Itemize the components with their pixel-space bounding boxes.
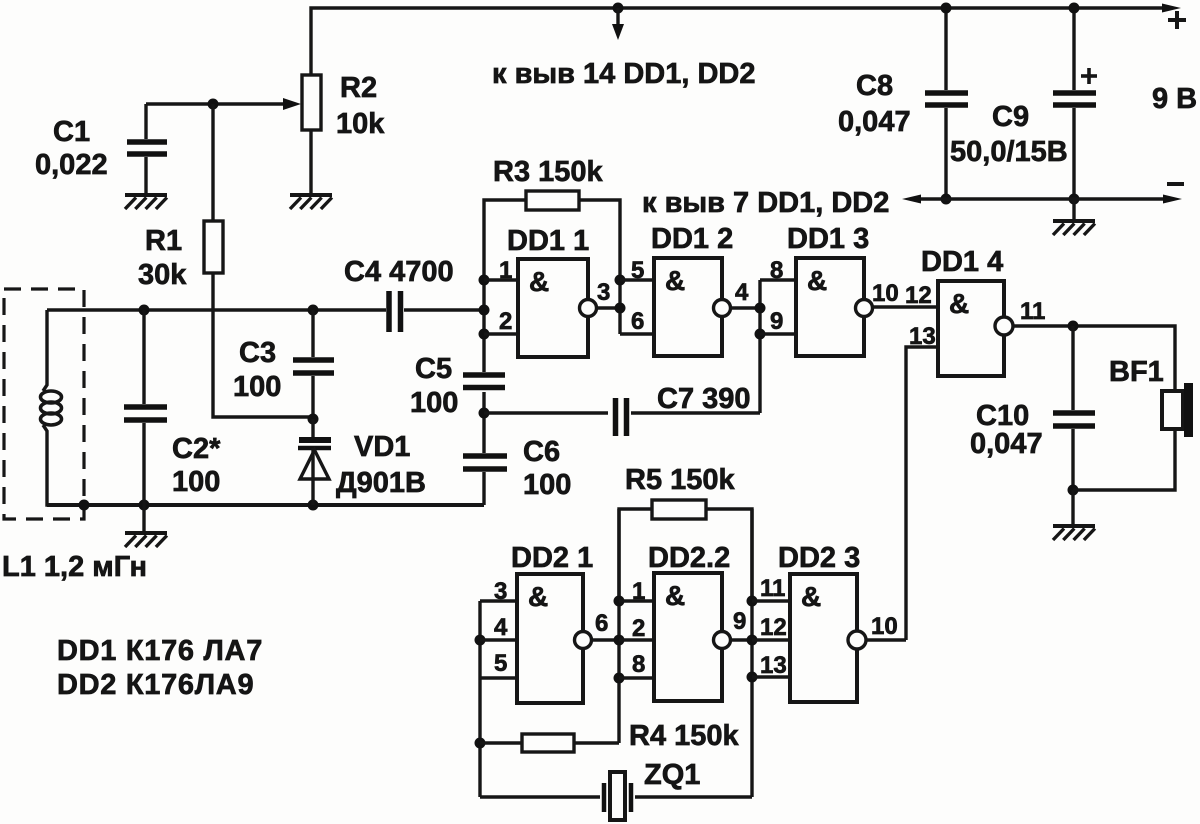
label 9 V [1152,83,1197,115]
wire +9V top rail [311,4,1181,76]
crystal ZQ1 [480,772,752,820]
speaker BF1 [1073,383,1193,490]
capacitor C9 polarized [1053,3,1097,205]
svg-text:C1: C1 [53,116,90,148]
svg-text:R1: R1 [145,225,182,257]
label BF1 [1109,356,1164,388]
svg-text:L1 1,2 мГн: L1 1,2 мГн [2,551,147,583]
svg-text:0,022: 0,022 [35,149,108,181]
svg-text:12: 12 [760,614,787,641]
label C7 390 [657,383,751,415]
pin 9 [770,308,783,335]
resistor R5 [619,500,752,601]
pin 4 [735,279,749,306]
svg-text:C4 4700: C4 4700 [344,256,454,288]
label R2 10k [336,72,385,140]
svg-text:100: 100 [523,469,571,501]
wire C9 to ground [1072,199,1075,221]
capacitor C10 [1053,326,1095,496]
pin 5 [631,257,644,284]
svg-text:&: & [529,266,549,297]
label к выв 14 DD1, DD2 [492,58,756,90]
label к выв 7 DD1, DD2 [642,187,889,219]
svg-text:13: 13 [760,652,787,679]
svg-text:8: 8 [632,651,645,678]
ground below C10 [1053,526,1095,540]
svg-text:DD2 К176ЛА9: DD2 К176ЛА9 [57,669,254,701]
svg-text:10: 10 [872,280,899,307]
wire pin13 stub from DD2.3 output [906,347,938,640]
gate DD2.2 [654,573,731,701]
node top rail junction to pin 14 with down arrow [612,3,624,41]
svg-text:к выв 7 DD1, DD2: к выв 7 DD1, DD2 [642,187,889,219]
gate DD1.2 [654,258,731,356]
wire C10 to ground [1071,490,1074,524]
potentiometer R2 body [302,75,321,130]
pin 12 DD2.3 [760,614,787,641]
pin 10 DD2.3 [871,613,898,640]
pin 2 DD2.2 [632,615,645,642]
label R3 150k [493,156,604,188]
label C1 0,022 [35,116,108,181]
svg-text:C5: C5 [415,353,452,385]
capacitor C5 [463,375,505,453]
svg-text:8: 8 [770,257,783,284]
wire out4 to DD1.3 inputs [731,280,766,413]
svg-text:C3: C3 [239,337,276,369]
wire pin13 stub [752,675,790,678]
label DD2 1 [511,542,593,574]
minus terminal symbol [1167,182,1184,186]
label DD2 K176LA9 [57,669,254,701]
svg-text:&: & [528,581,548,612]
svg-text:100: 100 [410,387,458,419]
label DD1 1 [507,225,589,257]
wire pin5 stub [480,676,517,679]
varicap diode VD1 [298,414,331,506]
wire out6 to DD2.2 inputs [592,509,625,743]
svg-text:100: 100 [172,466,220,498]
wire pin6 stub [620,332,654,335]
svg-text:9 В: 9 В [1152,83,1197,115]
svg-text:1: 1 [499,257,512,284]
label C6 100 [523,436,571,501]
capacitor C4 [389,291,401,332]
wire tank bottom node [47,500,484,511]
wire pin3 stub [480,599,517,602]
label C8 0,047 [838,70,911,138]
svg-text:DD1 4: DD1 4 [921,246,1003,278]
svg-text:10: 10 [871,613,898,640]
svg-text:R3 150k: R3 150k [493,156,604,188]
svg-text:0,047: 0,047 [838,106,911,138]
svg-text:DD2 1: DD2 1 [511,542,593,574]
svg-text:50,0/15В: 50,0/15В [950,136,1068,168]
pin 1 DD2.2 [632,578,645,605]
wire pin9 stub [760,332,796,335]
pin 13 [909,323,936,350]
pin 8 DD2.2 [632,651,645,678]
capacitor C3 [293,310,334,419]
svg-text:VD1: VD1 [354,431,410,463]
label R5 150k [625,464,736,496]
gate DD1.3 [796,258,873,356]
wire out9 to DD2.3 inputs [731,509,758,797]
svg-text:10k: 10k [336,108,385,140]
svg-text:6: 6 [631,308,644,335]
label R1 30k [138,225,187,291]
wire pin1 stub [484,278,518,281]
svg-text:DD1 1: DD1 1 [507,225,589,257]
pin 1 [499,257,512,284]
node input DD1.1 vertical [479,275,490,373]
svg-text:1: 1 [632,578,645,605]
svg-text:11: 11 [760,575,785,602]
capacitor C7 [484,398,760,436]
ground below R2 [290,195,332,209]
svg-text:к выв 14 DD1, DD2: к выв 14 DD1, DD2 [492,58,756,90]
inductor L1 dashed screen box [4,289,84,519]
label C4 4700 [344,256,454,288]
label C5 100 [410,353,458,419]
svg-text:C9: C9 [992,101,1029,133]
wire R2 bottom lead [309,130,312,193]
node DD2.1 inputs bracket [475,601,486,797]
label C3 100 [233,337,281,403]
label DD2 3 [778,542,860,574]
svg-text:&: & [665,580,685,611]
svg-text:30k: 30k [138,259,187,291]
svg-text:DD1 2: DD1 2 [651,223,733,255]
plus terminal symbol [1168,11,1186,29]
capacitor C6 [463,456,507,505]
svg-text:3: 3 [597,279,610,306]
wire pin8 stub DD2.2 [619,676,654,679]
svg-text:C6: C6 [523,436,560,468]
gate DD1.1 [518,259,597,357]
wire out11 node [1013,321,1175,392]
pin 8 [770,257,783,284]
label C9 50,0/15B [950,101,1068,168]
pin 4 [494,614,508,641]
pin 3 [597,279,610,306]
wire out3 to DD1.2 inputs [597,275,626,335]
pin 6 [631,308,644,335]
svg-text:ZQ1: ZQ1 [644,759,700,791]
pin 13 DD2.3 [760,652,787,679]
svg-text:11: 11 [1020,298,1045,325]
wire pin2 stub DD2.2 [619,638,654,641]
label L1 1,2 mH [2,551,147,583]
wire tank top node [47,305,484,316]
svg-text:4: 4 [494,614,508,641]
ground below C9 [1053,221,1095,235]
wire pin12 stub [752,638,790,641]
label C2* 100 [172,433,221,498]
label DD1 2 [651,223,733,255]
svg-text:Д901В: Д901В [336,467,426,499]
pin 9 DD2.2 [733,608,746,635]
wire pin8 stub [760,278,796,281]
wire R2 wiper arrow [146,98,301,110]
svg-text:2: 2 [632,615,645,642]
pin 11 [1020,298,1045,325]
svg-text:DD2.2: DD2.2 [648,542,730,574]
wire -9V bottom rail with arrows [902,195,1182,204]
capacitor C8 [925,3,968,205]
svg-text:&: & [801,581,821,612]
svg-text:&: & [665,265,685,296]
inductor L1 coil [41,310,85,505]
svg-text:DD1 К176 ЛА7: DD1 К176 ЛА7 [57,635,263,667]
resistor R4 [480,734,619,752]
label C10 0,047 [970,400,1043,460]
label ZQ1 [644,759,700,791]
svg-text:DD2 3: DD2 3 [778,542,860,574]
wire pin11 stub [752,599,790,602]
label DD1 4 [921,246,1003,278]
label R4 150k [629,720,740,752]
svg-text:5: 5 [494,650,507,677]
svg-text:&: & [949,288,969,319]
svg-text:C7 390: C7 390 [657,383,751,415]
ground below C2 [142,505,145,531]
svg-text:C8: C8 [856,70,893,102]
resistor R1 [204,104,313,417]
svg-text:4: 4 [735,279,749,306]
svg-text:&: & [807,265,827,296]
pin 2 [499,308,512,335]
svg-text:DD1 3: DD1 3 [787,223,869,255]
pin 11 DD2.3 [760,575,785,602]
gate DD2.3 [790,574,866,702]
svg-text:R5 150k: R5 150k [625,464,736,496]
label DD1 K176 LA7 [57,635,263,667]
wire pin5 stub [620,278,654,281]
svg-text:9: 9 [770,308,783,335]
gate DD2.1 [517,574,592,703]
pin 12 [905,282,932,309]
svg-text:100: 100 [233,371,281,403]
svg-text:C2*: C2* [172,433,221,465]
svg-text:0,047: 0,047 [970,428,1043,460]
label VD1 D901V [336,431,426,499]
svg-text:9: 9 [733,608,746,635]
capacitor C1 [127,104,167,193]
pin 10 [872,280,899,307]
wire out10 to pin12 [873,305,938,308]
wire pin1 stub DD2.2 [619,599,654,602]
svg-text:5: 5 [631,257,644,284]
svg-text:2: 2 [499,308,512,335]
svg-text:R2: R2 [340,72,377,104]
svg-text:6: 6 [595,610,608,637]
pin 6 [595,610,608,637]
svg-text:BF1: BF1 [1109,356,1164,388]
label DD2.2 [648,542,730,574]
gate DD1.4 [938,281,1013,376]
wire out10 DD2.3 [866,638,906,641]
label DD1 3 [787,223,869,255]
pin 3 [494,578,507,605]
wire pin4 stub [480,638,517,641]
ground below C1 [125,195,167,209]
wire pin2 stub [484,332,518,335]
svg-text:12: 12 [905,282,932,309]
pin 5 [494,650,507,677]
resistor R3 [484,191,620,280]
svg-text:3: 3 [494,578,507,605]
capacitor C2 [124,310,167,505]
svg-text:R4 150k: R4 150k [629,720,740,752]
